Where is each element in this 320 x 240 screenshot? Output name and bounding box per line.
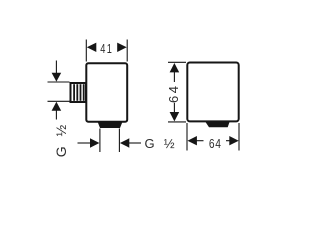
svg-text:½: ½: [164, 136, 175, 151]
svg-text:64: 64: [166, 83, 181, 103]
svg-text:G ½: G ½: [53, 124, 69, 157]
svg-text:64: 64: [209, 136, 222, 151]
svg-text:41: 41: [100, 42, 113, 56]
svg-text:G: G: [145, 136, 155, 151]
